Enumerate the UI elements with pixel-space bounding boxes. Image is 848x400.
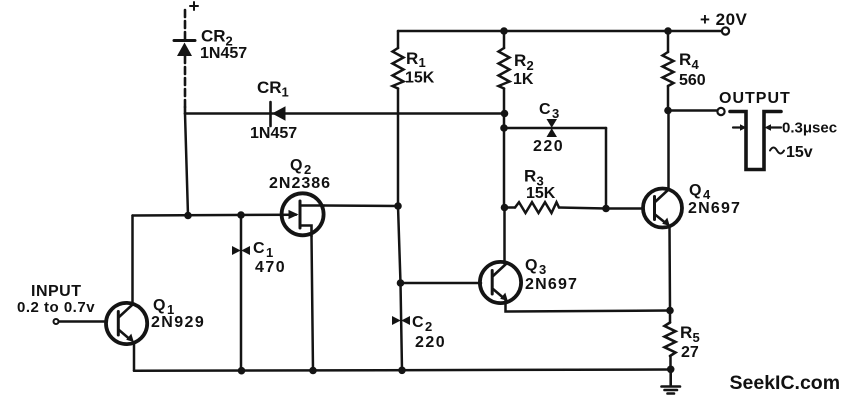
transistor Q4 [643,189,682,228]
wire R2 to CR1 node [503,89,506,114]
svg-text:2: 2 [425,319,432,334]
label 0.3usec [782,120,837,137]
label R2 [514,51,534,73]
label Q3 [525,257,546,277]
junction R4 top [664,27,672,35]
svg-text:R: R [524,167,536,186]
label 27 (R5) [681,344,699,361]
svg-text:C: C [253,240,265,257]
junction Q4 base node [602,205,610,213]
svg-text:Q: Q [290,157,302,174]
junction R2 top [500,27,508,35]
capacitor C2 [401,283,403,371]
watermark SeekIC.com [730,372,841,394]
label 1K (R2) [513,71,534,88]
wire Q2 source to ground rail [312,236,314,371]
label C3 [539,101,559,121]
wire dashed below CR2 [184,56,187,107]
junction Q2 drain / R1 [394,202,402,210]
svg-text:15K: 15K [405,70,435,87]
junction R3 left / Q3 collector [501,204,509,212]
label Q2 [290,157,311,177]
wire Q1 collector [131,216,134,305]
label 560 (R4) [679,72,706,89]
junction C1 top [237,211,245,219]
svg-text:1K: 1K [513,71,534,88]
label 1N457 (CR2) [200,45,247,62]
wire dashed above CR2 [184,10,187,40]
wire Q4 base [606,207,643,210]
svg-text:0.3μsec: 0.3μsec [782,120,837,137]
wire mid node down (R1 node to Q3 base node) [398,206,401,283]
label R4 [679,50,700,72]
label 2N2386 (Q2) [269,175,331,192]
svg-text:OUTPUT: OUTPUT [719,90,791,107]
label 220 (C3) [533,138,564,155]
svg-text:1: 1 [282,85,289,100]
svg-text:1: 1 [419,55,426,70]
wire R4 to output node [667,86,670,111]
label R1 [406,49,426,70]
svg-text:15K: 15K [526,185,556,202]
label 15K (R3) [526,185,556,202]
capacitor C1 [240,215,243,371]
resistor R5 [669,311,672,323]
resistor R4 [663,52,674,86]
svg-text:+ 20V: + 20V [700,10,748,29]
junction C3 left [500,124,508,132]
svg-text:CR: CR [257,78,282,97]
transistor Q3 [480,262,521,303]
wire base bus (Q1 collector to Q2 gate) [133,213,297,216]
junction Q3 base node [397,279,405,287]
junction emitters / R5 top [666,307,674,315]
wire R2 branch upper [503,31,506,48]
svg-text:0.2 to 0.7v: 0.2 to 0.7v [17,299,95,316]
label 0.2 to 0.7v [17,299,95,316]
wire Q1 emitter to ground rail [133,342,136,371]
wire Q2 drain to R1 node [324,204,398,207]
svg-text:2N697: 2N697 [525,276,578,293]
svg-text:3: 3 [552,106,559,121]
wire Q3 emitter run [506,300,671,312]
svg-text:1N457: 1N457 [200,45,247,62]
svg-text:1N457: 1N457 [250,125,297,142]
resistor R2 [499,48,510,89]
svg-text:CR: CR [201,27,226,46]
capacitor C3 [504,127,606,130]
terminal INPUT [54,319,59,324]
label C2 [412,314,432,334]
wire Q4 collector [667,111,670,191]
svg-text:220: 220 [415,334,446,351]
wire output [668,109,717,112]
ground [662,369,681,393]
svg-text:2N929: 2N929 [151,314,205,331]
label INPUT [31,283,82,300]
label 220 (C2) [415,334,446,351]
svg-text:470: 470 [255,259,286,276]
label + (CR2 supply) [190,2,198,10]
label R3 [524,167,544,189]
svg-text:27: 27 [681,344,699,361]
svg-text:R: R [406,49,418,68]
svg-text:C: C [412,314,424,331]
label 15K (R1) [405,70,435,87]
wire Q4 emitter [668,226,671,311]
label OUTPUT [719,90,791,107]
label 2N697 (Q3) [525,276,578,293]
waveform width arrow right [770,126,781,128]
svg-text:C: C [539,101,551,118]
svg-text:2N2386: 2N2386 [269,175,331,192]
wire R1 branch upper [397,31,400,48]
label 1N457 (CR1) [250,125,297,142]
transistor Q2 [282,193,324,236]
junction base bus left [184,212,192,220]
label R5 [680,323,700,345]
wire R2 node down to R3 node [503,114,506,208]
label Q4 [689,182,711,202]
svg-text:2N697: 2N697 [688,200,741,217]
label +20V [700,10,748,29]
svg-text:220: 220 [533,138,564,155]
label 2N697 (Q4) [688,200,741,217]
wire Q3 collector [503,208,506,264]
svg-text:4: 4 [692,57,700,72]
wire R1 to Q2 drain node [397,89,400,207]
diode CR2 [174,39,195,42]
svg-text:Q: Q [153,297,165,314]
wire C3 right branch down [605,128,608,209]
svg-text:15v: 15v [786,144,813,161]
node output junction [664,107,672,115]
svg-text:3: 3 [539,262,546,277]
junction CR1-R2 node [501,110,509,118]
label 2N929 (Q1) [151,314,205,331]
svg-text:INPUT: INPUT [31,283,82,300]
svg-text:R: R [679,50,691,69]
svg-text:560: 560 [679,72,706,89]
wire CR2 node down to base bus [185,114,188,216]
svg-text:Q: Q [689,182,701,199]
svg-text:R: R [514,51,526,70]
label CR1 [257,78,289,100]
wire input to Q1 base [59,320,106,323]
wire R4 branch upper [667,31,670,52]
svg-text:R: R [680,323,692,342]
resistor R1 [393,48,404,89]
label 470 (C1) [255,259,286,276]
svg-text:5: 5 [693,330,700,345]
terminal +20V [722,27,729,34]
waveform width arrow left [733,126,741,128]
junction ground rail / R5 [667,366,675,374]
diode CR1 [269,102,272,126]
svg-text:SeekIC.com: SeekIC.com [730,372,841,394]
junction C2 bottom [398,367,406,375]
svg-text:Q: Q [525,257,537,274]
junction Q2 source bottom [309,367,317,375]
label Q1 [153,297,174,317]
transistor Q1 [106,303,147,344]
wire Q3 base [401,282,482,285]
wire CR1 net [185,112,504,115]
label ~15v [770,148,784,154]
terminal OUTPUT [717,108,724,115]
svg-text:1: 1 [266,245,273,260]
junction C1 bottom [238,367,246,375]
label CR2 [201,27,233,49]
resistor R3 [505,206,516,209]
label C1 [253,240,273,260]
wire ground rail [134,370,671,371]
wire +20V top rail [398,30,721,33]
output waveform pulse [730,112,781,170]
